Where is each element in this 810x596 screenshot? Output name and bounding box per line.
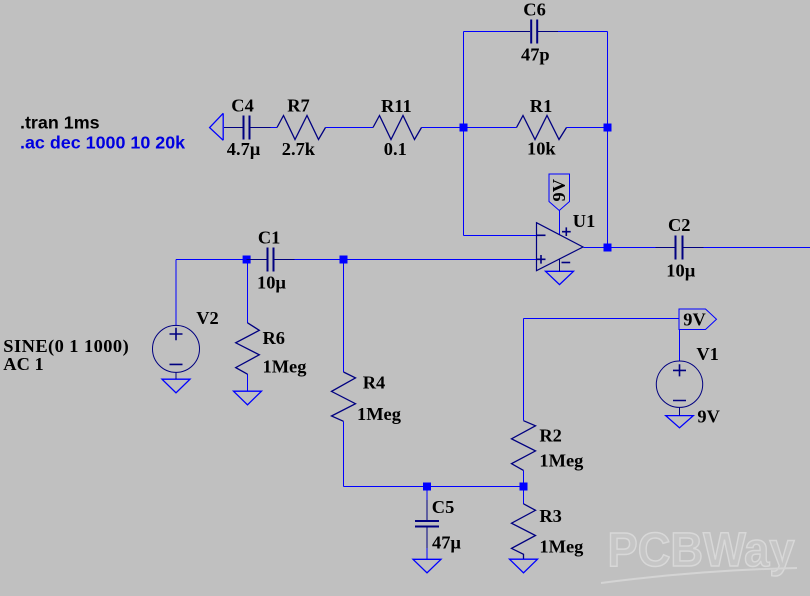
svg-text:4.7µ: 4.7µ <box>227 139 261 159</box>
svg-text:C2: C2 <box>668 215 690 235</box>
svg-text:R4: R4 <box>363 373 385 393</box>
svg-text:C4: C4 <box>231 96 253 116</box>
svg-text:R1: R1 <box>530 96 552 116</box>
svg-text:R6: R6 <box>263 328 285 348</box>
svg-text:9V: 9V <box>697 406 720 426</box>
svg-text:10µ: 10µ <box>666 261 695 281</box>
svg-text:47p: 47p <box>521 45 550 65</box>
svg-text:.tran 1ms: .tran 1ms <box>20 112 100 132</box>
svg-text:U1: U1 <box>573 211 595 231</box>
svg-text:R2: R2 <box>539 425 561 445</box>
svg-text:2.7k: 2.7k <box>282 139 316 159</box>
svg-text:1Meg: 1Meg <box>539 451 584 471</box>
svg-text:.ac dec 1000 10 20k: .ac dec 1000 10 20k <box>20 132 185 152</box>
svg-text:1Meg: 1Meg <box>357 404 402 424</box>
svg-text:9V: 9V <box>549 178 569 201</box>
svg-text:1Meg: 1Meg <box>539 536 584 556</box>
svg-text:R7: R7 <box>287 96 309 116</box>
svg-text:R3: R3 <box>539 506 561 526</box>
svg-text:AC 1: AC 1 <box>3 354 43 374</box>
svg-text:C1: C1 <box>258 227 280 247</box>
svg-text:1Meg: 1Meg <box>263 356 308 376</box>
svg-text:9V: 9V <box>683 310 706 330</box>
svg-text:47µ: 47µ <box>432 533 461 553</box>
svg-text:R11: R11 <box>381 96 412 116</box>
svg-text:V2: V2 <box>196 308 218 328</box>
svg-text:V1: V1 <box>696 344 718 364</box>
svg-text:C6: C6 <box>523 0 545 19</box>
svg-text:10k: 10k <box>527 139 556 159</box>
svg-text:C5: C5 <box>432 497 454 517</box>
svg-text:10µ: 10µ <box>257 272 286 292</box>
svg-text:0.1: 0.1 <box>384 139 407 159</box>
